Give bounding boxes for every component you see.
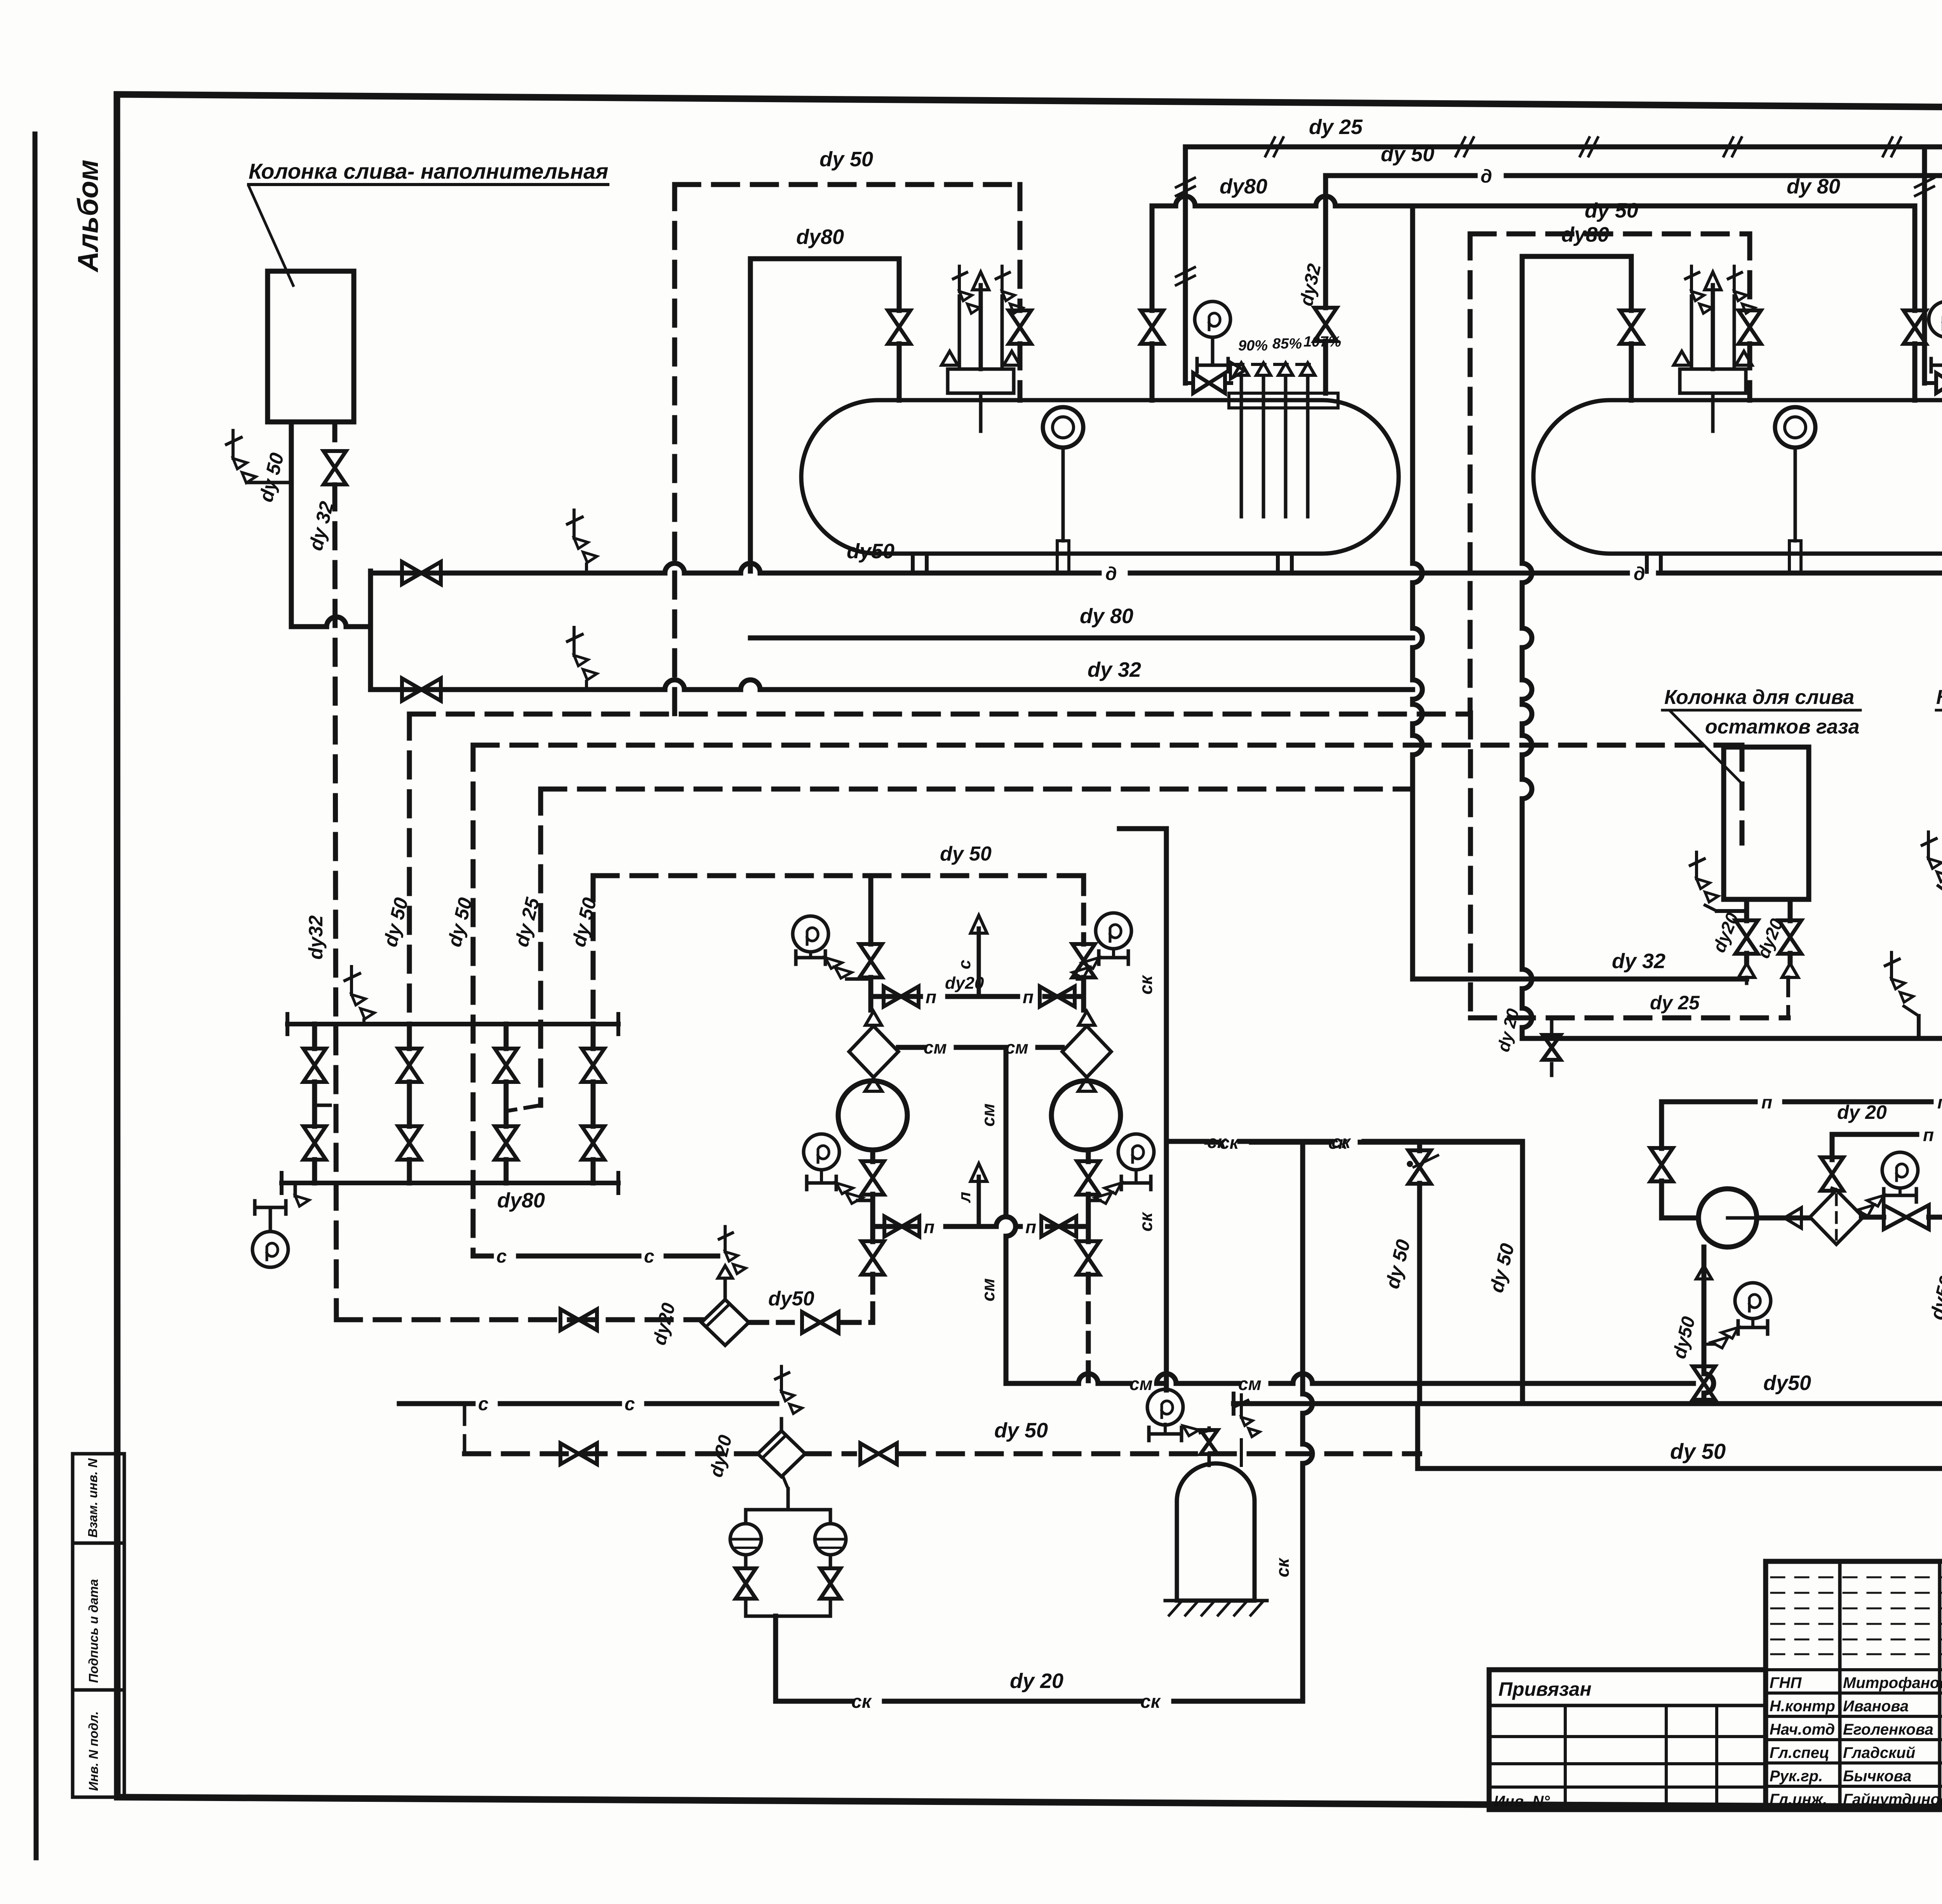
vessel supports: [911, 554, 915, 572]
dashed bus 3: [541, 787, 1413, 792]
T2 left dy80 loop: [1522, 254, 1631, 259]
pump2 circle: [1051, 1081, 1121, 1150]
svg-text:п: п: [1761, 1092, 1772, 1112]
pump1 top gauge: [793, 916, 828, 952]
svg-text:ГНП: ГНП: [1770, 1674, 1802, 1691]
svg-text:п: п: [1023, 987, 1034, 1007]
sk collection line A: [1166, 1139, 1523, 1144]
bottle ground: [1165, 1599, 1267, 1603]
K2 right pipe dy20: [1788, 899, 1793, 921]
T1 left dy80 loop: [750, 256, 899, 261]
unit1 low gauge: [1735, 1283, 1771, 1319]
svg-text:dy20: dy20: [649, 1301, 679, 1347]
sm line between filters: [898, 1045, 1062, 1050]
svg-text:107%: 107%: [1303, 334, 1341, 350]
svg-text:Гладский: Гладский: [1843, 1744, 1915, 1761]
svg-text:п: п: [926, 987, 936, 1007]
svg-text:dy 50: dy 50: [1381, 143, 1434, 166]
svg-text:Нач.отд: Нач.отд: [1770, 1721, 1835, 1738]
svg-text:см: см: [1005, 1037, 1028, 1057]
svg-text:dy80: dy80: [1220, 175, 1267, 198]
svg-text:ск: ск: [1136, 974, 1156, 995]
pump1 circle: [838, 1081, 907, 1150]
svg-text:c: c: [644, 1246, 654, 1267]
pi lower line: [1832, 1132, 1942, 1137]
svg-text:Взам. инв. N: Взам. инв. N: [85, 1458, 100, 1538]
pump risers to dashed bus: [868, 876, 874, 944]
svg-text:Гайнутдинова: Гайнутдинова: [1843, 1791, 1942, 1808]
pi bottom line: [873, 1217, 1088, 1226]
svg-text:dy50: dy50: [1669, 1314, 1699, 1360]
vessel tank T1: [801, 400, 1399, 554]
filter F3: [701, 1300, 749, 1345]
pump1 bottom gauge: [804, 1134, 839, 1170]
svg-text:остатков газа: остатков газа: [1705, 716, 1860, 738]
sm center vertical: [1006, 1047, 1016, 1383]
K1 junction: [291, 617, 371, 627]
unit1 discharge valve: [1863, 1215, 1884, 1220]
pump bottom valves: [870, 1150, 875, 1162]
dy20 drop to bottle from dashed: [1550, 1018, 1554, 1032]
left stamp strip: [73, 1454, 124, 1797]
svg-text:п: п: [1923, 1125, 1934, 1145]
dashed bus 2: [473, 743, 1742, 748]
svg-text:Еголенкова: Еголенкова: [1843, 1721, 1933, 1738]
vessel tank T2: [1533, 400, 1942, 554]
svg-text:Альбом: Альбом: [72, 160, 104, 273]
sm bottom line: [1006, 1374, 1693, 1383]
svg-text:dy80: dy80: [796, 225, 844, 249]
title block small table: [1489, 1670, 1766, 1810]
svg-text:Рук.гр.: Рук.гр.: [1770, 1768, 1823, 1785]
svg-text:dy 50: dy 50: [820, 148, 873, 171]
K3 vent: [1927, 832, 1930, 859]
manifold bottom header: [282, 1181, 618, 1185]
vent on y2673: [1890, 953, 1893, 979]
svg-text:dy 20: dy 20: [1010, 1669, 1063, 1693]
center vent arrow: [977, 928, 981, 996]
pump2 discharge riser: [1086, 1226, 1091, 1242]
svg-text:Гл.спец: Гл.спец: [1770, 1744, 1829, 1761]
dy32 line to K2: [1413, 977, 1747, 982]
T2 gauge P: [1929, 301, 1942, 337]
svg-text:см: см: [1129, 1374, 1153, 1394]
plug valve: [1417, 1141, 1422, 1151]
svg-text:п: п: [924, 1217, 934, 1237]
svg-text:90%: 90%: [1238, 338, 1268, 354]
svg-text:dy 50: dy 50: [1381, 1237, 1414, 1291]
dy80 bus over vessels: [1152, 196, 1915, 206]
svg-text:д: д: [1481, 166, 1492, 187]
svg-text:Привязан: Привязан: [1498, 1678, 1592, 1700]
svg-text:dy50: dy50: [847, 540, 894, 563]
dy25 line y2673: [1522, 1036, 1942, 1041]
svg-text:Колонка наполнительная: Колонка наполнительная: [1936, 686, 1942, 709]
svg-text:dy 50: dy 50: [1670, 1439, 1726, 1463]
T1 safety valves: [948, 369, 1014, 393]
line y3613 dy50: [1234, 1401, 1942, 1406]
svg-text:ск: ск: [1140, 1691, 1161, 1712]
svg-text:ск: ск: [851, 1691, 872, 1712]
pipe d line top dy50: [1326, 173, 1942, 178]
K2 vent: [1695, 852, 1698, 879]
dashed bus 1: [409, 712, 1470, 717]
T2 safety valves: [1680, 369, 1746, 393]
svg-text:д: д: [1634, 564, 1645, 584]
svg-text:dy32: dy32: [1296, 262, 1325, 308]
pi upper line: [1662, 1092, 1942, 1102]
dashed dy25 west segment: [1470, 1016, 1788, 1021]
T2 gauge drop: [1922, 147, 1927, 383]
manifold P gauge: [294, 1183, 297, 1196]
bus dy32 lower: [371, 680, 1413, 690]
pipe dy25 top line: [1185, 145, 1942, 150]
svg-text:dy 25: dy 25: [1309, 115, 1363, 139]
svg-text:dy32: dy32: [305, 915, 327, 960]
sk main vertical: [1164, 829, 1169, 1390]
unit1 link to filter: [1757, 1216, 1810, 1221]
column K2 rect: [1724, 747, 1809, 899]
svg-text:dy 80: dy 80: [1787, 175, 1840, 198]
bus dy50 lower with d glyphs: [371, 563, 1942, 573]
separators: [730, 1524, 761, 1555]
svg-text:ск: ск: [1136, 1211, 1156, 1232]
svg-text:п: п: [1937, 1092, 1942, 1112]
unit1 suction riser low: [1704, 1247, 1714, 1404]
svg-text:д: д: [1105, 564, 1117, 584]
dy25 left drop to T1: [1183, 147, 1188, 383]
T1 tap box: [1229, 393, 1338, 408]
svg-text:dy 32: dy 32: [1088, 658, 1141, 681]
F4 dashed inlet: [465, 1451, 758, 1456]
center vent arrow 2: [977, 1177, 981, 1226]
K1 left pipe dy50: [289, 422, 294, 627]
T1 gauge P: [1195, 301, 1230, 337]
T2 dashed dy50 loop: [1470, 232, 1750, 237]
T2 right dy80 drop: [1912, 208, 1918, 310]
manifold valve column x1054: [407, 1024, 412, 1049]
sk line A: [1207, 1140, 1523, 1145]
K2 right pipe dashed down: [1786, 977, 1790, 1018]
K2 left pipe dy20: [1744, 899, 1749, 921]
unit1 compressor: [1698, 1189, 1757, 1247]
manifold valve column x1527: [591, 1024, 596, 1049]
svg-text:Подпись и дата: Подпись и дата: [86, 1579, 101, 1683]
svg-text:ск: ск: [1328, 1132, 1349, 1153]
gas bottle: [1177, 1463, 1255, 1601]
svg-text:dy50: dy50: [1926, 1273, 1942, 1322]
svg-text:dy 80: dy 80: [1080, 604, 1133, 628]
manifold top vent: [350, 967, 353, 995]
svg-text:Бычкова: Бычкова: [1843, 1768, 1911, 1785]
pump2 top gauge: [1096, 913, 1131, 949]
svg-text:dy 32: dy 32: [1612, 949, 1665, 973]
dy32 drop to T1 manifold: [1323, 176, 1328, 308]
svg-text:Инв. N подл.: Инв. N подл.: [86, 1711, 101, 1791]
K1 drain vent: [231, 430, 235, 458]
c line 2: [399, 1401, 777, 1406]
pump2 bottom gauge: [1118, 1134, 1154, 1170]
manifold top header: [287, 1022, 618, 1026]
sk bottom line: [776, 1699, 1303, 1704]
bottle P gauge: [1147, 1389, 1183, 1425]
svg-text:ск: ск: [1220, 1132, 1240, 1153]
unit1 feed from pi lower: [1830, 1134, 1835, 1160]
return line y3780 dy50: [1415, 1404, 1420, 1469]
svg-text:Н.контр: Н.контр: [1770, 1698, 1835, 1715]
svg-text:dy 50: dy 50: [994, 1419, 1048, 1442]
svg-text:ск: ск: [1272, 1557, 1293, 1577]
c line 1: [473, 1254, 718, 1259]
T1 right dy80 drop: [1150, 206, 1155, 310]
svg-text:см: см: [978, 1103, 998, 1127]
svg-text:c: c: [625, 1394, 635, 1414]
filter F4: [758, 1431, 805, 1477]
svg-text:Иванова: Иванова: [1843, 1698, 1909, 1715]
svg-text:dy50: dy50: [1763, 1371, 1811, 1395]
sheet edge: [35, 134, 36, 1858]
title block signature table: [1766, 1561, 1942, 1810]
unit1 feed from pi upper: [1659, 1102, 1664, 1148]
unit1 filter: [1810, 1190, 1863, 1244]
svg-text:см: см: [978, 1278, 998, 1301]
T1 dashed dy50 loop: [675, 182, 1020, 187]
column K1 rect: [268, 271, 354, 422]
svg-text:dy 50: dy 50: [1485, 1241, 1518, 1295]
T2 level gauge: [1775, 407, 1815, 448]
bus dy80 mid: [750, 636, 1413, 641]
pump1 filter: [849, 1026, 898, 1077]
svg-text:dy 50: dy 50: [567, 895, 600, 949]
pi top line: [871, 994, 1084, 999]
K1 right pipe dy32 dashed: [332, 422, 338, 451]
svg-text:dy 50: dy 50: [1585, 199, 1638, 222]
pump2 filter: [1062, 1026, 1111, 1077]
svg-text:Колонка слива- наполнительная: Колонка слива- наполнительная: [249, 159, 608, 183]
svg-text:dy 20: dy 20: [1837, 1101, 1887, 1123]
bottle top fittings: [1208, 1454, 1211, 1465]
F3 outlet: [749, 1320, 792, 1325]
svg-text:л: л: [955, 1192, 974, 1203]
svg-text:Гл.инж.: Гл.инж.: [1770, 1791, 1827, 1808]
manifold valve column x810: [312, 1024, 317, 1049]
dashed bus 4 dy50: [593, 873, 1084, 878]
T1 level gauge: [1043, 407, 1083, 448]
manifold jog col1: [315, 1104, 336, 1107]
svg-text:см: см: [1238, 1374, 1262, 1394]
unit1 top gauge: [1882, 1152, 1918, 1188]
svg-text:с: с: [955, 960, 974, 969]
sk riser to bottom line: [1303, 1141, 1312, 1701]
F4 outlet dashed: [805, 1451, 854, 1456]
F3 dashed inlet: [336, 1317, 701, 1322]
svg-text:dy50: dy50: [768, 1287, 814, 1310]
svg-text:п: п: [1025, 1217, 1036, 1237]
svg-text:Митрофанов: Митрофанов: [1843, 1674, 1942, 1691]
svg-text:c: c: [496, 1246, 507, 1267]
svg-text:Колонка для слива: Колонка для слива: [1664, 686, 1854, 709]
svg-text:см: см: [924, 1037, 947, 1057]
svg-text:dy 20: dy 20: [1494, 1007, 1523, 1054]
pump1 suction riser: [870, 1226, 875, 1242]
manifold valve column x1303: [504, 1024, 509, 1049]
svg-text:dy80: dy80: [497, 1189, 545, 1212]
svg-text:dy 25: dy 25: [1650, 992, 1700, 1014]
svg-text:c: c: [478, 1394, 489, 1414]
svg-text:Инв. N°: Инв. N°: [1494, 1793, 1550, 1810]
svg-text:85%: 85%: [1272, 336, 1302, 352]
svg-text:dy 50: dy 50: [255, 451, 288, 504]
vertical between vessels: [1413, 206, 1422, 979]
svg-text:dy 50: dy 50: [940, 843, 992, 865]
